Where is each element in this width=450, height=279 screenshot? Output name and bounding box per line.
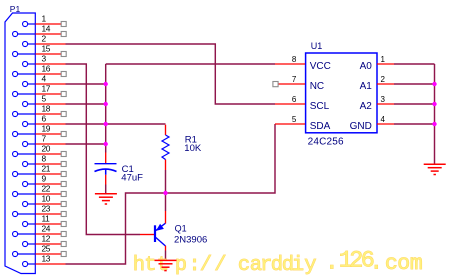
svg-text:A2: A2 [360, 101, 373, 112]
svg-text:5: 5 [292, 115, 297, 124]
svg-text:13: 13 [42, 253, 51, 263]
svg-text:17: 17 [42, 83, 51, 93]
svg-text:4: 4 [42, 73, 47, 83]
svg-text:3: 3 [42, 53, 47, 63]
svg-text:NC: NC [310, 81, 324, 92]
svg-text:24: 24 [42, 223, 51, 233]
svg-text:19: 19 [42, 123, 51, 133]
svg-text:1: 1 [42, 13, 47, 23]
svg-text:A1: A1 [360, 81, 373, 92]
svg-text:P1: P1 [10, 4, 21, 14]
svg-text:10K: 10K [184, 143, 202, 154]
svg-text:4: 4 [381, 115, 386, 124]
svg-text:.: . [369, 250, 383, 277]
svg-text:U1: U1 [311, 41, 323, 51]
svg-text:24C256: 24C256 [308, 137, 344, 148]
svg-text:9: 9 [42, 173, 47, 183]
svg-text:14: 14 [42, 23, 51, 33]
svg-text:SCL: SCL [310, 101, 330, 112]
svg-text:3: 3 [381, 95, 386, 104]
svg-text:21: 21 [42, 163, 51, 173]
svg-text:Q1: Q1 [175, 223, 187, 233]
svg-text:8: 8 [292, 55, 297, 64]
svg-text:VCC: VCC [310, 61, 331, 72]
svg-text:com: com [385, 252, 423, 276]
svg-text:GND: GND [350, 121, 372, 132]
svg-text:2N3906: 2N3906 [174, 235, 207, 246]
svg-text:6: 6 [292, 95, 297, 104]
svg-text:18: 18 [42, 103, 51, 113]
svg-text:2: 2 [381, 75, 386, 84]
svg-text:47uF: 47uF [121, 172, 143, 183]
svg-text:1: 1 [381, 55, 386, 64]
svg-text:10: 10 [42, 193, 51, 203]
svg-text:22: 22 [42, 183, 51, 193]
svg-text:23: 23 [42, 203, 51, 213]
svg-text:7: 7 [292, 75, 297, 84]
svg-text:.: . [325, 250, 339, 277]
svg-text:7: 7 [42, 133, 47, 143]
svg-text:15: 15 [42, 43, 51, 53]
svg-text:20: 20 [42, 143, 51, 153]
svg-text:http://carddiy: http://carddiy [133, 254, 317, 277]
svg-text:16: 16 [42, 63, 51, 73]
svg-text:12: 12 [42, 233, 51, 243]
svg-text:8: 8 [42, 153, 47, 163]
svg-text:6: 6 [42, 113, 47, 123]
svg-text:2: 2 [42, 33, 47, 43]
svg-text:SDA: SDA [310, 121, 331, 132]
svg-text:A0: A0 [360, 61, 373, 72]
svg-text:11: 11 [42, 213, 51, 223]
svg-text:5: 5 [42, 93, 47, 103]
svg-text:25: 25 [42, 243, 51, 253]
